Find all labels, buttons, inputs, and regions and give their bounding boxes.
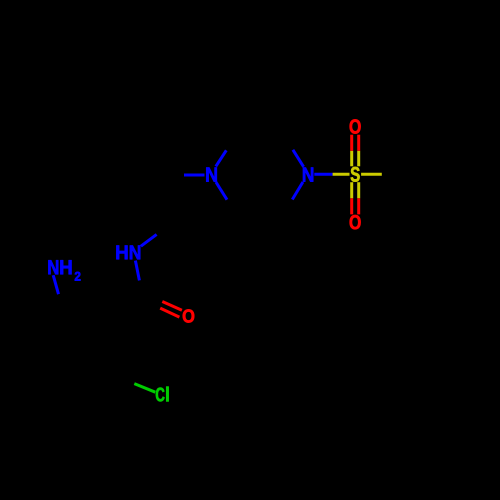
wire: S=O bottom double bond line 2, S half — [357, 182, 360, 198]
wire: C=O carbonyl double bond line 1, O half — [162, 302, 182, 311]
wire: bond NH2 to ring C (down), N half — [53, 275, 58, 294]
wire: S=O bottom double bond line 1, S half — [350, 182, 353, 198]
wire: S=O bottom double bond line 2, O half — [357, 198, 360, 214]
node Cl: chlorine label, C — [156, 388, 165, 402]
wire: bond N1 to ring C (down-right), N half — [216, 182, 227, 200]
wire: S=O top double bond line 2, S half — [357, 151, 360, 167]
wire: S=O bottom double bond line 1, O half — [350, 198, 353, 214]
wire: bond amide N-H to CH2 (up-right), N half — [141, 234, 157, 246]
node S: sulfonyl sulfur label — [351, 167, 360, 182]
node HN: amide nitrogen label, H — [116, 246, 127, 260]
wire: bond amide N to carbonyl C (down), N half — [135, 261, 139, 281]
wire: bond CH2 to piperazine N1, N half — [184, 174, 205, 177]
wire: bond ring C to Cl, Cl half — [134, 384, 155, 393]
wire: bond S to methyl C, S half — [361, 173, 382, 176]
wire: bond N2 to S, N half — [314, 173, 332, 176]
wire: bond N2 to ring C (up-left), N half — [293, 150, 304, 167]
node N1: piperazine nitrogen label — [206, 168, 217, 182]
node NH2: amine label, N — [48, 260, 58, 274]
node O: sulfonyl oxygen bottom label — [350, 215, 361, 229]
node O: carbonyl oxygen label — [183, 309, 194, 322]
node O: sulfonyl oxygen top label — [350, 119, 361, 133]
wire: S=O top double bond line 1, O half — [350, 135, 353, 151]
node N2: sulfonamide nitrogen label — [303, 168, 313, 182]
wire: bond N2 to S, S half — [333, 173, 350, 176]
wire: S=O top double bond line 1, S half — [350, 151, 353, 167]
wire: C=O carbonyl double bond line 2, O half — [160, 308, 179, 317]
node Cl: chlorine label, l — [166, 387, 168, 402]
node NH2: amine label, H — [60, 260, 71, 274]
node HN: amide nitrogen label, N — [130, 246, 140, 260]
wire: S=O top double bond line 2, O half — [357, 135, 360, 151]
node NH2: amine label, subscript 2 — [75, 272, 81, 281]
wire: bond N2 to ring C (down-left), N half — [292, 182, 303, 200]
wire: bond N1 to ring C (up-right), N half — [216, 150, 227, 166]
